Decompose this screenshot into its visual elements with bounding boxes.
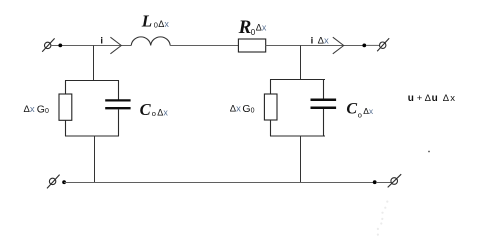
inductor L1 [131, 37, 170, 46]
wire top rail left segment [51, 45, 131, 47]
wire shunt feed left-top [93, 46, 95, 82]
svg-text:C: C [140, 100, 152, 119]
faint watermark dots [377, 201, 389, 236]
wire top bar of right shunt loop [270, 79, 325, 81]
svg-text:i: i [100, 36, 103, 47]
terminal P1 (top-left input) [42, 38, 54, 51]
wire left vertical upper (left loop) [65, 81, 67, 95]
wire top rail middle segment [170, 45, 238, 47]
terminal P2 (top-right output) [377, 38, 389, 51]
wire left vertical upper (right loop) [270, 80, 272, 95]
svg-text:Δx: Δx [24, 104, 35, 115]
svg-text:R: R [238, 17, 252, 38]
arrowhead current i (left) [110, 37, 121, 54]
svg-text:Δx: Δx [363, 106, 374, 116]
arrowhead current i (right) [333, 37, 344, 54]
svg-text:G0: G0 [242, 103, 254, 115]
svg-text:o: o [358, 110, 362, 119]
svg-text:L: L [141, 11, 152, 30]
svg-text:Δx: Δx [157, 108, 168, 118]
svg-text:u: u [432, 93, 438, 104]
svg-text:o: o [152, 109, 156, 118]
wire capacitor lead lower (left loop) [118, 109, 120, 136]
svg-text:Δx: Δx [256, 23, 267, 33]
svg-text:i: i [311, 36, 314, 47]
terminal P4 (bottom-right) [388, 174, 402, 187]
svg-text:G0: G0 [37, 103, 49, 115]
wire shunt feed right-bottom [300, 136, 302, 183]
svg-text:Δ: Δ [425, 93, 432, 104]
wire to bottom-right terminal [377, 182, 391, 184]
node A junction dot top-left [58, 44, 62, 48]
wire left vertical lower (right loop) [270, 120, 272, 136]
stray ink dot [428, 151, 430, 153]
node B junction dot top-right [362, 44, 366, 48]
wire bottom rail [64, 182, 375, 184]
wire shunt feed left-bottom [94, 136, 96, 183]
svg-text:Δx: Δx [230, 104, 241, 115]
svg-text:Δx: Δx [158, 19, 169, 29]
wire shunt feed right-top [300, 46, 302, 81]
wire top bar of left shunt loop [65, 80, 119, 82]
wire capacitor lead lower (right loop) [323, 109, 325, 136]
capacitor C1 plates [105, 100, 130, 108]
svg-text:Δ: Δ [443, 93, 450, 104]
wire bottom bar of left shunt loop [65, 135, 119, 137]
conductance G1 box [59, 94, 72, 120]
wire capacitor lead upper (left loop) [118, 81, 120, 100]
terminal P3 (bottom-left) [47, 175, 60, 189]
svg-text:x: x [450, 93, 455, 104]
capacitor C2 plates [311, 100, 337, 108]
resistor R1 [238, 39, 265, 52]
wire top rail right segment [266, 45, 364, 47]
wire to top-right terminal [366, 44, 380, 46]
svg-text:Δx: Δx [318, 36, 329, 47]
svg-text:+: + [417, 93, 423, 104]
wire left vertical lower (left loop) [65, 120, 67, 136]
svg-text:u: u [408, 93, 414, 104]
node D junction dot bottom-right [373, 180, 377, 184]
wire capacitor lead upper (right loop) [323, 80, 325, 99]
conductance G2 box [264, 94, 277, 120]
node C junction dot bottom-left [62, 180, 66, 184]
svg-text:C: C [346, 101, 357, 118]
wire bottom bar of right shunt loop [270, 135, 325, 137]
